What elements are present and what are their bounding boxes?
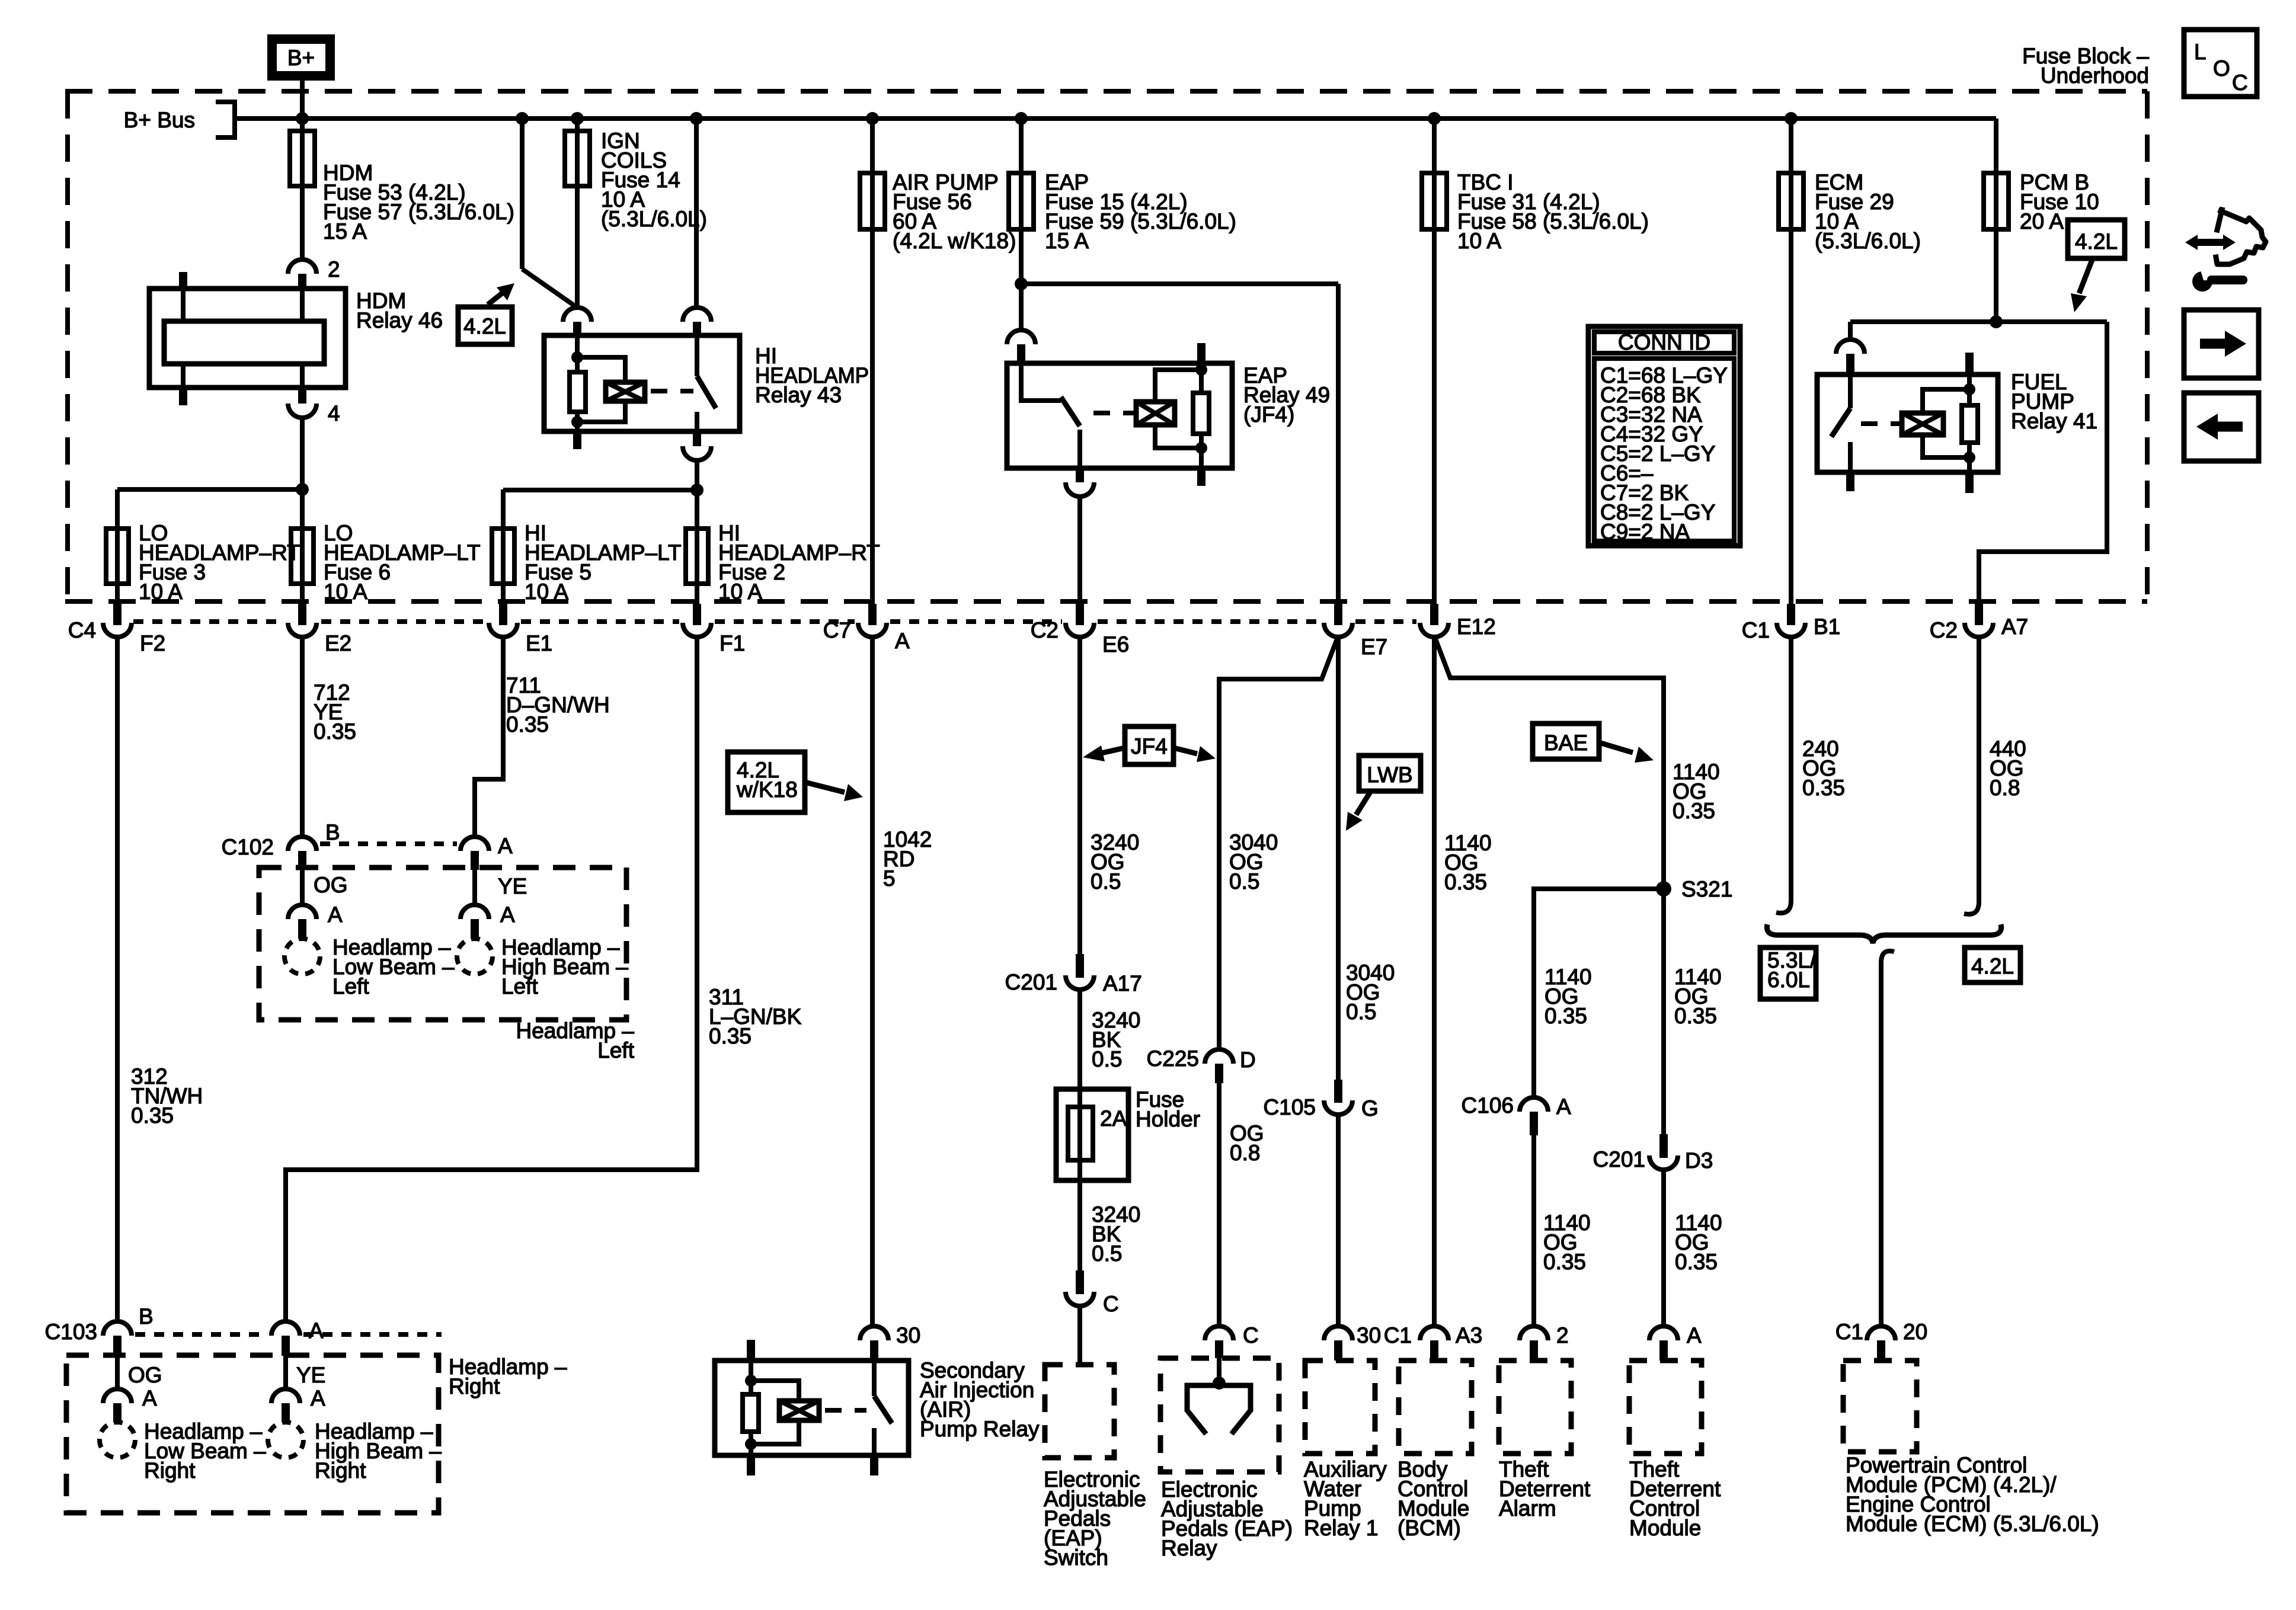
wire 312 TN/WH from C4 F2 [115,636,120,1321]
wire C to EAP switch [1077,1305,1082,1365]
svg-text:E2: E2 [325,631,351,655]
connector C of EAP switch [1076,1270,1084,1294]
svg-text:LWB: LWB [1367,763,1412,787]
JF4 tag box with arrows [1125,726,1173,764]
relay 46 contact rectangle [164,321,324,364]
junction on bus x=881 [516,112,529,125]
4.2L tag box (engine option) [458,307,512,344]
wire fuse Fuse 6 to connector [300,489,305,605]
junction on bus x=2420 [1428,112,1441,125]
svg-text:Module: Module [1629,1516,1701,1540]
svg-text:A: A [142,1386,157,1410]
svg-text:10 A: 10 A [1457,229,1501,253]
svg-text:F1: F1 [720,631,745,655]
module Body Control Module (BCM) dashed box [1399,1361,1472,1454]
svg-text:C: C [1243,1323,1259,1347]
wire 240 OG from C1 B1 [1789,636,1793,901]
fuse PCM B Fuse 10 [1984,173,2009,229]
svg-text:C106: C106 [1462,1093,1514,1118]
wire 711 D-GN/WH from E1 [475,636,503,837]
arrow 4.2L tag to wire [2079,258,2093,293]
AIR relay coil [779,1401,819,1420]
connector relay 43 output [683,446,711,460]
svg-text:0.5: 0.5 [1092,1047,1122,1071]
wire 3040 below C105 to aux water pump relay [1336,1113,1341,1326]
svg-text:E6: E6 [1102,632,1129,657]
connector C7 A at fuse block [868,604,877,625]
relay 49 switch [1021,363,1061,401]
connector C4 F2 at fuse block [113,604,121,625]
svg-text:Underhood: Underhood [2041,63,2149,88]
B+ Bus bracket and label [216,102,235,137]
headlamp right dashed box [66,1355,439,1513]
wire to LO HEADLAMP-LT fuse [300,489,305,529]
svg-text:C7: C7 [823,618,851,642]
wire fuse Fuse 3 to connector [115,489,120,605]
4.2L tag at PCM B [2068,220,2125,258]
connector C1 A3 of BCM [1420,1326,1448,1340]
module Auxiliary Water Pump Relay 1 dashed box [1305,1361,1375,1454]
wire OG 0.8 from C225 to EAP relay [1217,1083,1221,1326]
relay 49 coil feed bracket [1197,343,1205,363]
svg-text:C1: C1 [1384,1323,1412,1347]
svg-text:(BCM): (BCM) [1398,1516,1461,1540]
connector C2 A7 at fuse block [1975,604,1983,625]
svg-text:C105: C105 [1264,1095,1316,1119]
connector A high beam right [271,1389,300,1403]
relay K49 EAP Relay 49 box [1007,363,1232,468]
junction on bus x=510 [296,112,309,125]
wire B+ bus horizontal [235,116,1996,121]
svg-text:A: A [309,1318,324,1343]
svg-text:C201: C201 [1593,1147,1645,1172]
svg-text:B: B [139,1304,154,1329]
svg-text:Left: Left [501,974,538,998]
connector pin 2 of HDM relay [288,260,316,274]
4.2L tag box [1965,948,2020,982]
svg-text:A: A [1556,1094,1571,1119]
svg-text:Right: Right [144,1458,196,1483]
wire 3040 OG from E7 to C105 [1336,636,1341,1080]
relay 46 right pin (pin 2 to pin 4 path) [300,289,305,321]
B+ battery terminal [267,34,335,81]
svg-text:YE: YE [498,874,527,898]
svg-text:C4: C4 [68,618,96,642]
connector relay 49 switch pin [1007,330,1035,344]
wire PCM B fuse to junction [1994,229,1998,322]
svg-text:B+ Bus: B+ Bus [124,108,195,132]
wire 712 YE from E2 [300,636,305,837]
5.3L/6.0L tag box [1760,948,1816,999]
svg-text:4: 4 [328,401,340,425]
relay 41 dashed link [1861,421,1900,426]
bulb headlamp low beam right [100,1422,135,1458]
svg-text:Relay 43: Relay 43 [755,383,842,407]
svg-text:L: L [2194,40,2207,64]
relay K46 HDM Relay 46 box [149,289,346,388]
svg-text:CONN ID: CONN ID [1618,330,1710,354]
wire bus to HDM fuse [300,119,305,186]
svg-text:G: G [1361,1096,1379,1121]
relay 43 coil branch [575,335,580,372]
wire TBC fuse down to connector [1432,229,1437,605]
relay 41 coil [1902,413,1943,435]
svg-text:A: A [1687,1323,1702,1347]
svg-text:Left: Left [332,974,369,998]
svg-text:D: D [1240,1048,1256,1072]
double arrow icon [2194,239,2227,246]
wire ECM fuse down to connector [1789,229,1793,605]
svg-text:A: A [328,902,343,927]
svg-text:2A: 2A [1100,1106,1127,1131]
wire B+ to bus [300,81,305,119]
module Theft Deterrent Control Module dashed box [1629,1361,1702,1454]
svg-text:(4.2L w/K18): (4.2L w/K18) [893,229,1016,253]
svg-text:0.35: 0.35 [1544,1004,1587,1028]
fuse AIR PUMP Fuse 56 [860,173,885,229]
svg-text:A: A [500,902,515,927]
module Theft Deterrent Alarm dashed box [1499,1361,1571,1454]
wire bus to EAP fuse [1019,119,1024,229]
svg-text:C1: C1 [1835,1320,1863,1344]
svg-text:S321: S321 [1681,877,1732,901]
svg-text:Module (ECM) (5.3L/6.0L): Module (ECM) (5.3L/6.0L) [1846,1512,2099,1536]
svg-text:4.2L: 4.2L [2075,229,2118,254]
svg-text:A: A [311,1386,325,1410]
svg-text:20 A: 20 A [2020,209,2064,233]
fuse Fuse 2 HI HEADLAMP&#8211;RT [686,529,708,584]
relay 49 coil [1136,402,1175,425]
svg-text:(5.3L/6.0L): (5.3L/6.0L) [601,207,707,231]
svg-text:D3: D3 [1685,1148,1713,1173]
wire fuel pump relay feed to C2 A7 [1979,322,2107,605]
svg-text:2: 2 [328,257,340,281]
fuse TBC I Fuse 31/58 [1422,173,1447,229]
wire 1140 OG from C106 to theft deterrent alarm [1531,1135,1536,1326]
wire bus to IGN COILS fuse [575,119,580,186]
relay 49 dashed link [1093,411,1134,415]
wire 3240 BK below fuse holder [1077,1160,1082,1270]
arrow 4.2L w/K18 to wire [805,782,845,792]
wire to LO HEADLAMP-RT fuse [117,487,302,492]
connector row C102 dotted line [320,841,457,846]
headlamp left dashed box [259,868,626,1020]
wire 440 OG from C2 A7 [1977,636,1981,902]
fuse HDM Fuse 53/57 [290,131,315,186]
wire 3040 OG from E7 to C225 [1219,636,1338,1049]
svg-text:OG: OG [314,873,348,897]
svg-text:Alarm: Alarm [1499,1496,1556,1521]
wire C103 B to low beam right [115,1356,120,1389]
brace joining 240/440 wires [1767,924,2001,943]
svg-text:w/K18: w/K18 [736,777,798,802]
EAP relay pictorial [1217,1358,1221,1383]
connector relay 41 switch pin [1836,340,1865,354]
svg-text:B1: B1 [1814,614,1840,639]
svg-text:Relay 41: Relay 41 [2011,409,2097,433]
svg-text:(5.3L/6.0L): (5.3L/6.0L) [1815,229,1921,253]
svg-text:YE: YE [296,1363,325,1387]
svg-text:C: C [1103,1292,1119,1316]
connector C1 B1 at fuse block [1787,604,1795,625]
connector pin 4 of HDM relay [288,404,316,418]
svg-text:0.35: 0.35 [131,1103,174,1128]
connector C201 A17 [1076,954,1084,978]
forward arrow box [2184,310,2259,378]
svg-text:0.35: 0.35 [1673,799,1715,823]
fuse EAP Fuse 15/59 [1009,173,1034,229]
module Electronic Adjustable Pedals (EAP) Relay dashed box [1160,1358,1279,1472]
arrow 4.2L to bypass wire [488,291,505,305]
connector A low beam right [103,1389,132,1403]
connector A high beam left [461,905,489,919]
connector row C103 dotted line [135,1332,268,1337]
svg-text:JF4: JF4 [1131,734,1168,758]
wire 3240 OG from C2 E6 [1077,636,1082,954]
relay 43 dashed link [651,389,693,393]
connector C103 A [271,1321,300,1336]
svg-text:10 A: 10 A [324,580,367,604]
connector C106 A [1520,1097,1548,1112]
svg-text:Relay 46: Relay 46 [356,308,443,332]
svg-text:20: 20 [1903,1320,1927,1344]
svg-text:Switch: Switch [1044,1545,1108,1570]
wire 1140 OG from E12 to BCM [1432,636,1437,1326]
fuse block underhood dashed border [65,89,2147,94]
svg-text:5: 5 [883,866,896,891]
module Electronic Adjustable Pedals (EAP) Switch dashed box [1045,1365,1114,1458]
svg-text:E12: E12 [1457,614,1496,639]
svg-text:A: A [895,629,910,653]
connector row dotted line [133,619,283,624]
4.2L w/K18 tag box [728,752,805,812]
wire to PCM/ECM module [1881,951,1894,1326]
connector 2 of theft deterrent alarm [1520,1326,1548,1340]
fuse IGN COILS Fuse 14 [565,131,590,186]
svg-text:0.35: 0.35 [1444,870,1487,894]
svg-text:OG: OG [128,1363,162,1387]
fuse ECM Fuse 29 [1779,173,1803,229]
svg-text:0.8: 0.8 [1230,1141,1260,1165]
wire S321 to theft deterrent alarm branch [1534,889,1664,1097]
svg-text:0.35: 0.35 [314,719,356,744]
svg-text:30: 30 [1357,1323,1381,1347]
wire 311 L-GN/BK from F1 [286,636,697,1321]
svg-text:C225: C225 [1147,1046,1199,1071]
connector 30 of aux water pump relay [1324,1326,1352,1340]
connector pins of HI headlamp relay 43 [563,308,591,322]
svg-text:0.5: 0.5 [1091,869,1121,894]
junction on bus x=974 [571,112,584,125]
relay 43 coil [606,382,645,401]
wire feed to fuel pump relay [1850,319,2107,324]
svg-text:Left: Left [597,1038,634,1062]
svg-text:0.35: 0.35 [1675,1250,1718,1274]
AIR relay dashed link [825,1408,866,1413]
BAE tag box with arrow [1533,724,1599,759]
wire C103 A to high beam right [283,1356,288,1389]
wire 4.2L bypass from bus [520,119,525,269]
svg-text:BAE: BAE [1544,731,1588,755]
junction on bus x=1472 [866,112,879,125]
LWB tag box with arrow [1359,756,1421,791]
svg-text:C102: C102 [222,835,274,859]
wire C102 B to low beam left [300,870,305,905]
svg-text:0.8: 0.8 [1990,776,2020,800]
connector C102 B [288,837,316,851]
svg-text:B+: B+ [287,46,315,70]
connector C201 D3 [1659,1134,1668,1158]
back arrow box [2184,393,2259,461]
fuse Fuse 3 LO HEADLAMP&#8211;RT [106,529,129,584]
fuse Fuse 5 HI HEADLAMP&#8211;LT [492,529,514,584]
relay 41 coil bracket [1965,353,1974,375]
svg-text:C2: C2 [1930,618,1958,642]
svg-text:Relay 1: Relay 1 [1304,1516,1378,1540]
wire HDM fuse to relay 46 pin 2 [300,186,305,261]
svg-text:Right: Right [449,1374,500,1398]
connector C105 G [1334,1080,1342,1103]
wire relay 49 output down [1077,495,1082,605]
relay Secondary Air Injection (AIR) Pump Relay box [715,1361,909,1455]
connector E2 at fuse block [298,604,306,625]
connector C225 D [1205,1049,1233,1064]
wire 3240 BK to fuse holder [1077,988,1082,1160]
svg-text:E7: E7 [1361,635,1387,659]
AIR relay switch [872,1361,877,1396]
svg-text:0.35: 0.35 [506,712,549,737]
svg-text:0.5: 0.5 [1346,1000,1376,1024]
svg-text:15 A: 15 A [323,219,367,244]
connector C103 B [103,1321,132,1336]
wire 1042 RD from C7 A down to AIR pump relay [870,636,875,1326]
svg-text:0.35: 0.35 [709,1024,752,1048]
AIR relay coil branch [747,1340,755,1361]
connector F1 at fuse block [693,604,701,625]
svg-text:4.2L: 4.2L [463,314,506,338]
wire relay 43 output to HI fuses [695,459,699,529]
wire bus to relay 43 switch pin [694,119,699,308]
connector relay 49 output [1066,482,1094,497]
connector C of EAP relay [1205,1326,1233,1340]
relay K43 HI HEADLAMP Relay 43 box [544,335,740,431]
relay 41 switch [1848,375,1853,408]
svg-text:10 A: 10 A [139,580,183,604]
connector C102 A [461,837,489,851]
connector A of theft deterrent control module [1649,1326,1678,1340]
svg-text:A: A [498,834,513,858]
wire bus to TBC I fuse [1432,119,1437,229]
junction on bus x=1175 [690,112,703,125]
svg-text:Relay: Relay [1161,1536,1217,1560]
svg-text:Pump Relay: Pump Relay [920,1417,1040,1441]
wire 1140 OG from C201 D3 to theft deterrent control module [1661,1169,1666,1326]
svg-text:C: C [2232,71,2248,95]
wire relay 46 pin 4 down [300,417,305,489]
svg-text:4.2L: 4.2L [1971,954,2014,978]
LOC reference symbol [2184,30,2257,97]
svg-text:10 A: 10 A [525,580,568,604]
svg-text:A3: A3 [1456,1323,1482,1347]
connector C1 20 of PCM/ECM [1867,1326,1895,1340]
relay 43 switch [695,335,699,376]
svg-text:C2: C2 [1031,618,1059,642]
bulb headlamp high beam left [457,939,493,974]
connector E7 at fuse block [1334,604,1342,625]
svg-text:0.35: 0.35 [1802,776,1845,800]
fuse holder box [1056,1089,1128,1180]
svg-text:0.5: 0.5 [1092,1241,1122,1266]
svg-text:Right: Right [315,1458,366,1483]
wire bus to AIR PUMP fuse [870,119,875,229]
relay 46 left pin [179,272,187,289]
svg-text:6.0L: 6.0L [1767,968,1810,992]
connector E12 at fuse block [1430,604,1438,625]
junction node LO headlamp feed [296,483,309,496]
bulb headlamp low beam left [284,939,320,974]
wire fuse Fuse 5 to connector [501,489,506,605]
svg-text:F2: F2 [140,631,165,655]
junction on bus x=3022 [1785,112,1798,125]
svg-text:E1: E1 [526,631,552,655]
fuse Fuse 6 LO HEADLAMP&#8211;LT [291,529,314,584]
svg-text:O: O [2213,56,2230,81]
wire EAP fuse to junction [1019,229,1024,284]
svg-text:B: B [325,820,340,844]
svg-text:0.35: 0.35 [1543,1250,1586,1274]
svg-text:(JF4): (JF4) [1243,402,1294,427]
wire AIR PUMP fuse down to connector [870,229,875,605]
svg-text:A7: A7 [2001,614,2028,639]
wire bus to ECM fuse [1789,119,1793,229]
svg-text:Holder: Holder [1136,1107,1200,1131]
junction on bus x=1723 [1015,112,1028,125]
vehicle outline icon [2216,211,2266,264]
svg-text:2: 2 [1556,1323,1569,1347]
module Powertrain/Engine Control Module dashed box [1843,1361,1917,1452]
svg-text:30: 30 [896,1323,920,1347]
connector E1 at fuse block [499,604,507,625]
wire EAP feed to E7 column [1021,281,1338,286]
wire IGN fuse to relay 43 coil pin [575,186,580,308]
relay K41 FUEL PUMP Relay 41 box [1817,375,1998,472]
bulb headlamp high beam right [268,1422,303,1458]
CONN ID table [1588,327,1740,546]
wire bus corner to PCM B fuse [1994,119,1998,229]
svg-text:C103: C103 [45,1320,97,1344]
connector 30 of AIR pump relay [860,1326,888,1340]
connector C2 E6 at fuse block [1076,604,1084,625]
wire 1140 OG from E12 to S321 [1434,636,1664,1134]
svg-text:10 A: 10 A [718,580,762,604]
svg-text:C201: C201 [1005,970,1057,994]
svg-text:0.35: 0.35 [1674,1004,1717,1028]
wrench icon [2192,271,2212,292]
splice S321 [1656,881,1671,897]
svg-text:C9=2 NA: C9=2 NA [1600,520,1690,544]
wire EAP junction to relay 49 [1019,284,1024,330]
connector A low beam left [288,905,316,919]
wire C102 A to high beam left [472,870,477,905]
svg-text:15 A: 15 A [1045,229,1089,253]
svg-text:0.5: 0.5 [1229,869,1259,894]
svg-text:C1: C1 [1742,618,1770,642]
svg-text:A17: A17 [1103,971,1142,996]
wire fuse Fuse 2 to connector [695,489,699,605]
